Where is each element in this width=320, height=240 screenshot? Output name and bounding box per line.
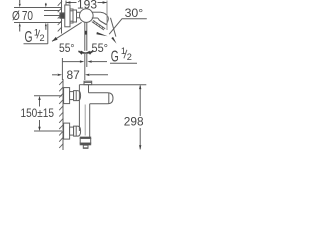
lower union nut — [74, 126, 81, 136]
dim 87 row2 left line with arrow — [52, 74, 57, 76]
upper union mid piece — [70, 92, 74, 100]
dim 193 extension line right — [106, 1, 108, 31]
dim 87 row1 extension lines — [84, 54, 86, 80]
svg-text:55°: 55° — [59, 41, 75, 55]
wall line (top view) — [61, 0, 63, 34]
outlet tab — [83, 145, 88, 148]
body shoulder — [79, 84, 91, 86]
pipe extension line lower — [44, 15, 60, 17]
svg-text:30°: 30° — [125, 6, 144, 20]
svg-text:G: G — [25, 28, 33, 46]
dim 87 row2 right line with arrow — [90, 74, 108, 76]
body right edge below spout — [89, 104, 91, 138]
valve piece A — [70, 9, 73, 23]
upper union escutcheon — [64, 88, 70, 104]
dim 87 row2 wall extension line — [61, 58, 63, 80]
cartridge circle — [80, 9, 94, 23]
body cap — [84, 81, 92, 85]
bottom outlet assembly — [80, 137, 91, 138]
svg-text:Ø 70: Ø 70 — [12, 9, 33, 23]
svg-text:2: 2 — [127, 52, 132, 62]
arrow to G1/2 right — [111, 37, 116, 44]
dim 193 line right segment with arrow — [98, 2, 108, 4]
leader 30deg — [109, 19, 122, 34]
body inner highlight line — [84, 105, 86, 136]
svg-text:298: 298 — [124, 115, 144, 129]
label G1/2 left leader — [47, 24, 49, 44]
label G1/2 right underline — [110, 62, 137, 64]
pipe dim arrow bottom-right — [45, 23, 47, 30]
dim 87 row1 right line with arrow — [92, 61, 107, 63]
dim 193 line left segment with arrow — [66, 2, 77, 4]
pipe dim arrow top-right — [45, 3, 47, 7]
spout tube bottom — [92, 17, 98, 19]
dim 150 bottom extension line — [34, 130, 62, 132]
svg-text:87: 87 — [67, 68, 81, 82]
label 30deg underline — [122, 18, 147, 20]
spout mouth line — [101, 21, 107, 24]
valve piece B — [73, 10, 77, 22]
leader tick 55deg right — [86, 51, 90, 53]
spout tube top — [92, 11, 101, 13]
dim 298 extension line — [92, 84, 147, 86]
upper union nut — [74, 91, 81, 101]
phantom lever left with arrowhead — [52, 22, 82, 41]
wall line (side view) — [62, 79, 64, 150]
svg-text:2: 2 — [40, 33, 45, 43]
tube to cartridge — [77, 11, 81, 13]
dim Ø70 arrow top-left — [19, 0, 21, 7]
body left edge — [78, 85, 80, 131]
dim 150 arrow up — [39, 99, 41, 107]
spout (side view) — [89, 93, 114, 104]
wall hatch (top view) — [58, 1, 62, 31]
dim Ø70 bottom extension line — [14, 22, 62, 24]
spout curved tip — [98, 12, 108, 24]
escutcheon (top view) — [65, 5, 70, 27]
dim 87 row1 left line with arrow — [63, 61, 81, 63]
lower union escutcheon — [64, 123, 70, 139]
lower union mid piece — [70, 127, 74, 135]
dim Ø70 arrow bottom-left — [19, 23, 21, 32]
lever stem joint detail — [85, 31, 87, 35]
leader tick 55deg left — [81, 51, 85, 53]
label G1/2 left — [25, 27, 45, 45]
leader G1/2 right — [111, 18, 116, 37]
lever swivel arc with arrows — [78, 51, 93, 53]
lever stem (top view) — [84, 22, 86, 51]
wall union pipe (dark) — [60, 13, 65, 18]
dim 298 line lower — [139, 128, 141, 149]
dim 150 top extension line — [34, 95, 62, 97]
dim 298 line upper — [139, 86, 141, 117]
spout end cap line — [108, 93, 110, 104]
pipe extension line upper — [44, 10, 60, 12]
wall hatch (side view) — [59, 80, 63, 148]
dim 193 extension line left — [65, 1, 67, 6]
body right edge above spout — [88, 85, 90, 93]
svg-text:150±15: 150±15 — [21, 106, 55, 120]
label G1/2 right — [111, 46, 132, 65]
fraction slash left — [37, 30, 40, 39]
label G1/2 left underline — [24, 43, 48, 45]
phantom lever right band — [92, 22, 104, 30]
svg-text:G: G — [111, 48, 119, 66]
fraction slash right — [124, 50, 127, 59]
svg-text:55°: 55° — [92, 41, 109, 55]
dim Ø70 top extension line — [14, 7, 62, 9]
dim 150 arrow down — [39, 120, 41, 128]
arrow to spout outlet — [96, 32, 107, 36]
svg-text:1: 1 — [34, 27, 39, 37]
